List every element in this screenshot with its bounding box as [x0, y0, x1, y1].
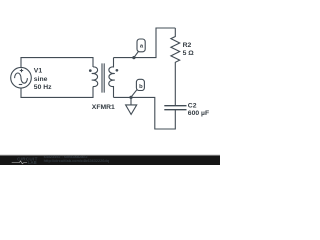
- wire bottom rail left loop: [21, 87, 93, 98]
- transformer core: [102, 63, 104, 92]
- svg-text:R2: R2: [183, 42, 192, 49]
- svg-text:http://circuitlab.com/c4b63632: http://circuitlab.com/c4b63632226dq: [44, 159, 110, 163]
- node b flag: [129, 96, 132, 99]
- svg-text:XFMR1: XFMR1: [92, 104, 115, 111]
- svg-text:sine: sine: [34, 76, 48, 83]
- svg-text:LAB: LAB: [28, 160, 37, 165]
- wire secondary bottom rail to C2: [114, 97, 176, 129]
- ground: [126, 97, 137, 114]
- svg-text:600 µF: 600 µF: [188, 110, 209, 117]
- wire secondary top rail to R2: [114, 28, 176, 58]
- svg-text:b: b: [139, 84, 143, 90]
- capacitor C2: [164, 106, 186, 110]
- voltage source V1: [11, 67, 32, 88]
- primary polarity dot: [89, 69, 92, 72]
- svg-text:50 Hz: 50 Hz: [34, 84, 52, 91]
- svg-text:V1: V1: [34, 68, 43, 75]
- secondary polarity dot: [116, 69, 119, 72]
- wire top rail left loop: [21, 58, 93, 68]
- resistor R2: [171, 28, 180, 106]
- svg-text:C2: C2: [188, 102, 197, 109]
- transformer XFMR1 primary winding: [92, 67, 98, 87]
- node a flag: [132, 56, 135, 59]
- svg-text:5 Ω: 5 Ω: [183, 50, 195, 57]
- transformer XFMR1 secondary winding: [109, 58, 115, 98]
